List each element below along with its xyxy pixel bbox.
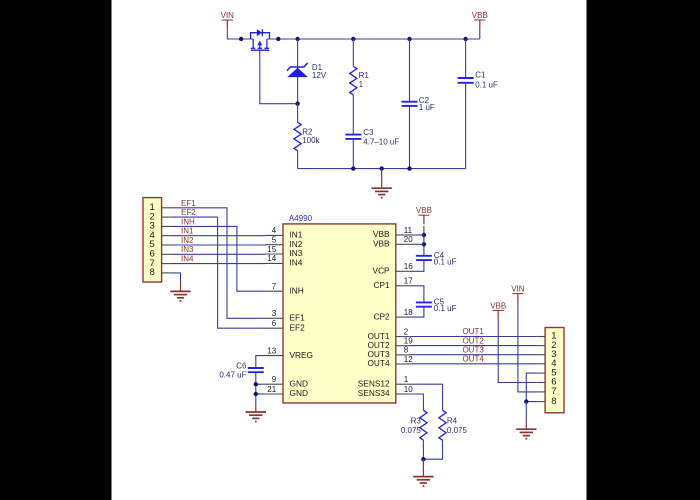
- svg-text:CP1: CP1: [373, 280, 390, 290]
- wire SENS12 to R4: [409, 384, 442, 410]
- pin stub VREG pin 13: [265, 355, 283, 357]
- svg-text:2: 2: [404, 327, 409, 336]
- pin stub VBB pin 11: [396, 234, 410, 236]
- node GND9: [254, 382, 258, 386]
- svg-text:EF2: EF2: [290, 322, 306, 332]
- svg-text:SENS12: SENS12: [358, 378, 390, 388]
- svg-text:VIN: VIN: [221, 11, 235, 20]
- wire pin11: [409, 234, 424, 236]
- pin stub VCP pin 16: [396, 270, 410, 272]
- svg-text:4.7–10 uF: 4.7–10 uF: [363, 137, 399, 146]
- wire ground stub: [180, 282, 182, 291]
- svg-text:EF1: EF1: [290, 313, 306, 323]
- ground (sense resistors): [413, 476, 433, 478]
- svg-text:INH: INH: [181, 218, 195, 227]
- wire VBB to J2 pin6: [498, 319, 537, 382]
- pin stub GND pin 9: [265, 383, 283, 385]
- pin stub J1-4: [162, 235, 171, 237]
- svg-text:A4990: A4990: [289, 214, 313, 223]
- svg-text:18: 18: [404, 308, 413, 317]
- svg-text:6: 6: [272, 319, 277, 328]
- wire net IN4: [170, 263, 265, 265]
- wire R4 to ground node: [423, 440, 442, 459]
- wire net EF2: [170, 217, 265, 328]
- svg-text:20: 20: [404, 235, 413, 244]
- svg-text:8: 8: [150, 267, 155, 278]
- pin stub INH pin 7: [265, 290, 283, 292]
- wire VREG to C6: [256, 356, 265, 367]
- svg-text:VCP: VCP: [373, 266, 391, 276]
- svg-text:VBB: VBB: [373, 239, 390, 249]
- node D1 branch: [295, 37, 299, 41]
- node GND21: [254, 392, 258, 396]
- svg-text:IN2: IN2: [181, 236, 194, 245]
- capacitor C1: [458, 77, 474, 79]
- pin stub OUT3 pin 8: [396, 354, 410, 356]
- node VBB pin11: [422, 233, 426, 237]
- svg-text:9: 9: [272, 375, 277, 384]
- wire VBB stub to rail: [479, 29, 481, 39]
- diode D1 zener 12V: [287, 68, 308, 77]
- node R1 branch: [351, 37, 355, 41]
- capacitor C3: [345, 134, 361, 136]
- svg-text:15: 15: [267, 245, 276, 254]
- connector J2 8-pin header: [545, 328, 564, 413]
- svg-text:8: 8: [404, 346, 409, 355]
- svg-text:0.47 uF: 0.47 uF: [219, 370, 246, 379]
- wire GND pin9: [256, 383, 265, 385]
- wire net OUT3: [409, 354, 537, 356]
- wire GND pin21: [256, 393, 265, 395]
- svg-text:19: 19: [404, 337, 413, 346]
- svg-text:INH: INH: [290, 285, 304, 295]
- wire sense ground stub: [422, 459, 424, 476]
- ground (C6/GND pins): [246, 411, 266, 413]
- pin stub SENS12 pin 1: [396, 383, 410, 385]
- transistor Q1 P-MOSFET reverse protection: [251, 29, 270, 50]
- pin stub IN4 pin 14: [265, 262, 283, 264]
- svg-text:VREG: VREG: [290, 350, 314, 360]
- pin stub J2-5: [537, 372, 545, 374]
- svg-text:10: 10: [404, 385, 413, 394]
- pin stub IN3 pin 15: [265, 253, 283, 255]
- pin stub OUT2 pin 19: [396, 345, 410, 347]
- pin stub VBB pin 20: [396, 243, 410, 245]
- ground (J1 pin 8): [170, 290, 190, 292]
- pin stub OUT1 pin 2: [396, 336, 410, 338]
- svg-text:1: 1: [359, 80, 364, 89]
- capacitor C5: [416, 301, 432, 303]
- resistor R3: [420, 410, 427, 440]
- pin stub J1-8: [162, 272, 171, 274]
- wire VIN to rail: [227, 29, 253, 39]
- svg-text:21: 21: [267, 385, 276, 394]
- node sense ground: [421, 457, 425, 461]
- svg-text:0.075: 0.075: [447, 426, 468, 435]
- wire net IN1: [170, 235, 265, 237]
- wire net EF1: [170, 208, 265, 318]
- svg-text:IN4: IN4: [290, 258, 303, 268]
- wire C5 to CP2: [409, 307, 424, 317]
- svg-text:GND: GND: [290, 378, 308, 388]
- node C1 branch: [463, 37, 467, 41]
- wire bottom rail: [298, 168, 466, 170]
- wire right ground stub: [525, 422, 527, 429]
- node gate/D1/R2 junction: [295, 102, 299, 106]
- wire net IN2: [170, 244, 265, 246]
- svg-text:VIN: VIN: [511, 285, 525, 294]
- svg-text:4: 4: [272, 226, 277, 235]
- pin stub J2-4: [537, 363, 545, 365]
- svg-text:EF1: EF1: [181, 199, 196, 208]
- node junction on VIN rail: [239, 37, 243, 41]
- svg-text:8: 8: [551, 396, 556, 407]
- pin stub J1-7: [162, 263, 171, 265]
- svg-text:1 uF: 1 uF: [419, 103, 435, 112]
- node C2 branch: [407, 37, 411, 41]
- svg-text:0.1 uF: 0.1 uF: [434, 304, 457, 313]
- pin stub J1-2: [162, 216, 171, 218]
- pin stub CP1 pin 17: [396, 285, 410, 287]
- svg-text:7: 7: [272, 282, 277, 291]
- wire C2 to bottom rail: [409, 106, 411, 168]
- pin stub SENS34 pin 10: [396, 393, 410, 395]
- wire VIN to J2 pin7: [518, 303, 537, 392]
- svg-text:R3: R3: [411, 417, 422, 426]
- wire C3 to bottom rail: [352, 140, 354, 169]
- node bottom rail gnd: [380, 166, 384, 170]
- svg-text:R1: R1: [359, 71, 370, 80]
- resistor R2: [294, 122, 301, 151]
- ground (top section): [372, 187, 392, 189]
- svg-text:GND: GND: [290, 388, 308, 398]
- wire rail Q1 to VBB corner: [267, 38, 480, 40]
- svg-text:VBB: VBB: [416, 206, 432, 215]
- wire C1 to bottom rail: [465, 83, 467, 168]
- wire net OUT2: [409, 345, 537, 347]
- svg-text:C6: C6: [236, 361, 247, 370]
- pin stub GND pin 21: [265, 393, 283, 395]
- svg-text:SENS34: SENS34: [358, 388, 390, 398]
- svg-text:CP2: CP2: [373, 311, 390, 321]
- wire net OUT4: [409, 363, 537, 365]
- wire D1 branch vertical: [297, 39, 299, 104]
- pin stub IN2 pin 5: [265, 244, 283, 246]
- wire J2 pin5 to pin8 gnd: [526, 373, 537, 402]
- svg-text:VBB: VBB: [490, 301, 506, 310]
- pin stub J1-1: [162, 207, 171, 209]
- pin stub J2-7: [537, 391, 545, 393]
- svg-text:R4: R4: [447, 417, 458, 426]
- wire rail to C2: [409, 39, 411, 102]
- wire R2 to bottom rail: [297, 151, 299, 169]
- wire ground stub mid: [255, 405, 257, 411]
- svg-text:12V: 12V: [312, 71, 327, 80]
- svg-text:VBB: VBB: [472, 11, 488, 20]
- wire C4 to VCP: [409, 261, 424, 272]
- pin stub EF2 pin 6: [265, 327, 283, 329]
- wire net INH: [170, 226, 265, 291]
- svg-text:IN1: IN1: [181, 227, 194, 236]
- ground (J2): [516, 428, 536, 430]
- pin stub J2-2: [537, 345, 545, 347]
- op-amp U1 A4990 IC body: [283, 224, 396, 403]
- pin stub J2-6: [537, 382, 545, 384]
- svg-text:OUT3: OUT3: [462, 345, 484, 354]
- svg-text:OUT4: OUT4: [462, 355, 484, 364]
- svg-text:EF2: EF2: [181, 208, 196, 217]
- pin stub EF1 pin 3: [265, 317, 283, 319]
- svg-text:IN4: IN4: [181, 255, 194, 264]
- pin stub J1-6: [162, 253, 171, 255]
- svg-text:12: 12: [404, 355, 413, 364]
- svg-text:100k: 100k: [302, 136, 320, 145]
- node bottom rail R1C3: [351, 166, 355, 170]
- svg-text:IN3: IN3: [181, 245, 194, 254]
- wire SENS34 to R3: [409, 394, 423, 410]
- svg-text:16: 16: [404, 262, 413, 271]
- node after Q1: [276, 37, 280, 41]
- wire node to R2: [297, 104, 299, 123]
- wire R3 to ground node: [422, 440, 424, 459]
- wire Q1 gate down to node: [260, 50, 298, 103]
- wire pin20: [409, 243, 424, 245]
- svg-text:13: 13: [267, 346, 276, 355]
- resistor R4: [439, 410, 446, 440]
- node J2 gnd junction: [524, 399, 528, 403]
- wire net OUT1: [409, 336, 537, 338]
- svg-text:11: 11: [404, 226, 413, 235]
- wire VBB to VCP via C4: [423, 226, 425, 255]
- svg-text:0.1 uF: 0.1 uF: [475, 80, 498, 89]
- pin stub OUT4 pin 12: [396, 363, 410, 365]
- connector J1 8-pin header: [143, 198, 162, 282]
- svg-text:0.1 uF: 0.1 uF: [434, 258, 457, 267]
- svg-text:OUT2: OUT2: [462, 336, 484, 345]
- svg-text:14: 14: [267, 254, 276, 263]
- pin stub J1-5: [162, 244, 171, 246]
- svg-text:0.075: 0.075: [401, 426, 422, 435]
- pin stub CP2 pin 18: [396, 316, 410, 318]
- capacitor C4: [416, 255, 432, 257]
- svg-text:1: 1: [404, 375, 409, 384]
- pin stub J2-3: [537, 354, 545, 356]
- node VBB pin20: [422, 242, 426, 246]
- svg-text:3: 3: [272, 309, 277, 318]
- wire to right ground: [525, 402, 527, 422]
- wire J1 pin8 to ground: [170, 273, 180, 282]
- svg-text:C3: C3: [363, 128, 374, 137]
- svg-text:OUT4: OUT4: [367, 358, 390, 368]
- wire CP1 to C5: [409, 286, 424, 302]
- wire C6 to ground: [255, 373, 257, 405]
- wire R1 to C3: [352, 95, 354, 134]
- resistor R1: [350, 66, 357, 95]
- svg-text:C1: C1: [475, 71, 486, 80]
- node bottom rail C2: [407, 166, 411, 170]
- pin stub J2-1: [537, 336, 545, 338]
- wire to top ground: [381, 169, 383, 188]
- svg-text:17: 17: [404, 277, 413, 286]
- capacitor C2: [402, 101, 418, 103]
- pin stub J2-8: [537, 401, 545, 403]
- wire rail to R1: [352, 39, 354, 66]
- wire net IN3: [170, 253, 265, 255]
- pin stub IN1 pin 4: [265, 234, 283, 236]
- capacitor C6: [248, 367, 264, 369]
- pin stub J1-3: [162, 225, 171, 227]
- wire rail to C1: [465, 39, 467, 78]
- svg-text:5: 5: [272, 236, 277, 245]
- svg-text:OUT1: OUT1: [462, 327, 484, 336]
